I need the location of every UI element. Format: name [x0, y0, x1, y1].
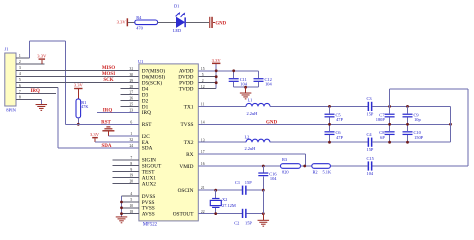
svg-text:6P: 6P — [380, 135, 385, 140]
pin 12 name TVDD U1 right — [179, 85, 205, 93]
svg-text:IRQ: IRQ — [30, 89, 40, 94]
wire D3 stub — [120, 94, 139, 96]
op-amp U1 MF522 body — [138, 59, 198, 227]
svg-text:820: 820 — [282, 170, 289, 175]
pin 15 name AVDD U1 right — [179, 67, 205, 75]
svg-text:47K: 47K — [81, 104, 88, 109]
wire OSCIN U1 pin21 to C1 — [198, 189, 242, 191]
svg-text:C3: C3 — [367, 96, 373, 101]
resistor R4 — [135, 15, 158, 30]
svg-text:23: 23 — [129, 109, 133, 113]
wire D4 stub — [120, 88, 139, 90]
svg-text:15P: 15P — [245, 220, 252, 225]
wire D1 to GND — [186, 21, 209, 23]
ground (oscillator) — [258, 220, 270, 227]
power 3.3V (LED row) — [117, 18, 128, 26]
junction C11C12 gnd — [244, 86, 247, 89]
wire VMID U1 pin16 to R3 — [198, 165, 280, 167]
wire antenna right vertical TX1-TX2 — [450, 106, 452, 142]
svg-text:MF522: MF522 — [143, 222, 158, 227]
svg-text:47P: 47P — [336, 135, 343, 140]
power 3.3V (EA) — [90, 132, 100, 142]
svg-text:MOSI: MOSI — [102, 72, 115, 77]
capacitor C15 (series) — [367, 156, 375, 176]
pin 7 name SIGIN U1 left — [130, 156, 156, 164]
capacitor C16 — [258, 166, 277, 190]
svg-text:2.2uH: 2.2uH — [245, 146, 257, 151]
pin 19 name AUX1 U1 left — [129, 174, 156, 182]
wire TX2 U1 pin13 to L2 — [198, 141, 246, 143]
svg-text:TVDD: TVDD — [179, 87, 194, 93]
wire antenna return to C15 — [372, 165, 468, 167]
inductor L1 — [246, 98, 270, 117]
svg-text:3: 3 — [19, 66, 21, 70]
wire C1 to gnd column — [247, 189, 264, 191]
resistor R3 — [281, 157, 301, 175]
junction AVSS — [120, 212, 123, 215]
svg-text:28: 28 — [129, 85, 133, 89]
wire MISO J1 pin3 to U1 pin31 — [16, 69, 139, 71]
junction TX2/C10 — [406, 141, 409, 144]
svg-text:D1: D1 — [174, 4, 179, 9]
svg-text:C4: C4 — [367, 132, 373, 137]
crystal X2 — [210, 190, 236, 213]
wire antenna top rail — [390, 88, 468, 90]
pin 21 name OSCIN U1 right — [178, 186, 205, 194]
wire AVDD rail — [198, 70, 258, 72]
svg-text:AVSS: AVSS — [142, 212, 155, 218]
svg-text:C15: C15 — [367, 156, 375, 161]
svg-text:2.2uH: 2.2uH — [247, 111, 259, 116]
pin 5 name PVSS U1 left — [130, 198, 154, 206]
svg-text:AUX2: AUX2 — [142, 181, 156, 187]
capacitor C10 — [403, 124, 424, 142]
pin 11 name TX1 U1 right — [184, 103, 205, 111]
wire R4 to D1 — [158, 21, 177, 23]
wire DVDD to bus — [198, 76, 216, 78]
svg-text:24: 24 — [129, 144, 133, 148]
svg-text:5: 5 — [19, 78, 21, 82]
pin 10 name TVSS U1 left — [129, 204, 154, 212]
wire J1 pin7 IRQ stub — [16, 93, 56, 95]
junction TVSS/C9 — [406, 123, 409, 126]
svg-text:LED: LED — [173, 28, 182, 33]
wire antenna outer right vertical — [467, 89, 469, 166]
pin 18 name AVSS U1 left — [129, 210, 154, 218]
svg-text:27.12M: 27.12M — [222, 203, 236, 208]
wire R1 to RST line — [77, 118, 79, 124]
svg-text:L2: L2 — [245, 135, 250, 140]
wire stub U1 left row — [113, 183, 140, 185]
svg-text:SDA: SDA — [142, 146, 153, 152]
svg-text:R2: R2 — [313, 170, 318, 175]
pin 2 name PVDD U1 right — [179, 79, 204, 87]
svg-text:27: 27 — [129, 91, 133, 95]
wire TX1 U1 pin11 to L1 — [198, 105, 246, 107]
capacitor C8 — [379, 124, 394, 142]
svg-text:3.3V: 3.3V — [90, 132, 100, 137]
wire stub U1 left row — [113, 159, 140, 161]
junction AVDD/bus — [215, 69, 218, 72]
capacitor C4 (series) — [367, 132, 374, 152]
svg-text:TX2: TX2 — [184, 140, 194, 146]
svg-text:R3: R3 — [282, 157, 288, 162]
wire RST to U1 pin6 — [66, 123, 140, 125]
svg-text:RST: RST — [101, 121, 111, 126]
svg-text:6: 6 — [130, 121, 132, 125]
pin 9 name TEST U1 left — [130, 168, 155, 176]
junction TX1/C5 — [328, 105, 331, 108]
wire SCK J1 pin5 to U1 pin29 — [16, 81, 139, 83]
wire TVDD to bus — [198, 88, 216, 90]
wire D2 stub — [120, 100, 139, 102]
svg-text:3.3V: 3.3V — [212, 58, 222, 63]
junction C1/gnd column — [262, 189, 265, 192]
wire TX1 after C3 — [372, 105, 451, 107]
wire stub U1 left row — [113, 171, 140, 173]
wire VDD bus vertical — [215, 64, 217, 89]
pin 28 name D4 U1 left — [129, 85, 148, 93]
svg-text:21: 21 — [201, 186, 205, 190]
pin 6 name RST U1 left — [130, 121, 152, 129]
junction OSTOUT/X2 — [214, 212, 217, 215]
svg-text:31: 31 — [129, 67, 133, 71]
junction R1/RST — [77, 123, 80, 126]
svg-text:L1: L1 — [248, 98, 253, 103]
svg-text:SCK: SCK — [103, 78, 113, 83]
junction PVSS — [120, 201, 123, 204]
pin 24 name SDA U1 left — [129, 144, 152, 152]
svg-text:VMID: VMID — [179, 164, 193, 170]
pin 22 name OSTOUT U1 right — [173, 210, 205, 218]
svg-text:D6(MOSI): D6(MOSI) — [142, 74, 165, 81]
pin 1 name I2C U1 left — [130, 132, 150, 140]
svg-text:3.3V: 3.3V — [37, 54, 47, 59]
svg-text:26: 26 — [129, 97, 133, 101]
wire to ground (C11 C12) — [245, 87, 247, 92]
pin 4 name DVSS U1 left — [130, 192, 155, 200]
junction TVSS/C7 — [388, 123, 391, 126]
pin 23 name IRQ U1 left — [129, 109, 151, 117]
svg-text:TVSS: TVSS — [181, 122, 194, 128]
svg-text:1: 1 — [130, 132, 132, 136]
svg-text:104: 104 — [367, 171, 374, 176]
pin 29 name D5(SCK) U1 left — [129, 79, 162, 87]
svg-text:MISO: MISO — [102, 66, 115, 71]
svg-text:104: 104 — [270, 176, 277, 181]
svg-text:R4: R4 — [136, 15, 142, 20]
pin 26 name D2 U1 left — [129, 97, 148, 105]
svg-text:TX1: TX1 — [184, 104, 194, 110]
junction C2/gnd column — [262, 212, 265, 215]
svg-text:5.1K: 5.1K — [323, 170, 332, 175]
pin 31 name D7(MISO) U1 left — [129, 67, 165, 75]
junction RX/R3/R2 — [303, 165, 306, 168]
wire D1 stub — [120, 105, 139, 107]
wire J1 pin1 to RST loop — [16, 41, 66, 124]
svg-text:47P: 47P — [336, 117, 343, 122]
svg-text:X2: X2 — [222, 197, 227, 202]
wire oscillator gnd column — [262, 190, 264, 220]
svg-text:25: 25 — [129, 103, 133, 107]
svg-text:RX: RX — [186, 152, 194, 158]
wire J1 pin8 to ground — [16, 100, 41, 105]
wire R3 to R2 — [301, 165, 312, 167]
capacitor C6 — [325, 124, 344, 142]
wire RX U1 pin17 — [198, 154, 305, 166]
junction DVDD/bus — [215, 75, 218, 78]
power 3.3V (R1) — [74, 83, 84, 99]
svg-text:10p: 10p — [414, 117, 421, 122]
wire I2C to U1 pin1 — [108, 135, 139, 137]
pin 25 name D1 U1 left — [129, 103, 148, 111]
pin 8 name SIGOUT U1 left — [130, 162, 162, 170]
wire C11/C12 bottom rail — [234, 86, 259, 88]
pin 32 name EA U1 left — [129, 138, 149, 146]
capacitor C12 — [254, 71, 273, 87]
junction TX1/C9 — [406, 105, 409, 108]
junction TVSS/C5 — [328, 123, 331, 126]
svg-text:30: 30 — [129, 73, 133, 77]
svg-text:8PIN: 8PIN — [6, 108, 16, 113]
ground (I2C pin, bars up) — [102, 126, 114, 136]
wire TX1 node up to top rail — [389, 89, 391, 107]
svg-text:J1: J1 — [5, 47, 9, 52]
junction PVDD/bus — [215, 81, 218, 84]
wire EA to U1 pin32 — [95, 141, 139, 143]
svg-text:3.3V: 3.3V — [74, 83, 84, 88]
resistor R1 — [76, 99, 88, 118]
svg-text:SDA: SDA — [101, 144, 111, 149]
svg-text:29: 29 — [129, 79, 133, 83]
wire C15 to R2 — [330, 165, 368, 167]
svg-text:15P: 15P — [367, 111, 374, 116]
junction C11 top — [232, 69, 235, 72]
capacitor C1 (series) — [235, 180, 252, 195]
svg-text:OSCIN: OSCIN — [178, 188, 194, 194]
wire J1 pin2 to 3.3V — [16, 63, 45, 65]
resistor R2 — [312, 164, 332, 175]
pin 17 name RX U1 right — [186, 150, 205, 158]
svg-text:IRQ: IRQ — [103, 109, 113, 114]
junction TVSS/antenna — [449, 123, 452, 126]
wire stub U1 left row — [113, 177, 140, 179]
connector J1 — [5, 47, 17, 113]
svg-text:104: 104 — [265, 82, 272, 87]
svg-text:C1: C1 — [235, 180, 240, 185]
capacitor C5 — [325, 106, 344, 124]
wire OSTOUT U1 pin22 to C2 — [198, 213, 242, 215]
capacitor C2 (series) — [234, 209, 252, 226]
wire 3.3V to R4 — [128, 21, 135, 23]
wire TX2 after C4 — [372, 141, 451, 143]
svg-text:104: 104 — [240, 82, 247, 87]
svg-text:U1: U1 — [138, 59, 143, 64]
svg-text:C2: C2 — [234, 220, 239, 225]
capacitor C9 — [403, 106, 422, 124]
svg-text:4: 4 — [19, 72, 21, 76]
power 3.3V (VDD bus) — [212, 58, 222, 64]
wire DVSS bus — [122, 196, 140, 216]
svg-text:3.3V: 3.3V — [117, 20, 127, 25]
pin 27 name D3 U1 left — [129, 91, 148, 99]
svg-text:GND: GND — [266, 120, 278, 125]
inductor L2 — [245, 135, 271, 151]
pin 5 name DVDD U1 right — [178, 73, 204, 81]
ground (J1 pin8) — [36, 104, 48, 111]
wire TX1 after L1 — [270, 105, 368, 107]
wire TVSS U1 pin14 to antenna — [198, 123, 450, 125]
svg-text:150P: 150P — [414, 135, 424, 140]
junction TX1/C7 — [388, 105, 391, 108]
wire IRQ to U1 pin23 — [97, 111, 139, 113]
capacitor C11 — [229, 71, 248, 87]
junction VMID/C16 — [262, 165, 265, 168]
power 3.3V (J1 pin2) — [37, 54, 47, 64]
junction TX2/C8 — [388, 141, 391, 144]
pin 20 name AUX2 U1 left — [129, 180, 156, 188]
ground (U1 VSS bus) — [116, 216, 128, 223]
junction TX2/C6 — [328, 141, 331, 144]
svg-text:IRQ: IRQ — [142, 110, 151, 116]
wire TX2 after L2 — [270, 141, 368, 143]
pin 30 name D6(MOSI) U1 left — [129, 73, 165, 81]
svg-text:32: 32 — [129, 138, 133, 142]
power GND (LED row) — [209, 17, 226, 28]
svg-text:GND: GND — [215, 22, 226, 27]
pin 16 name VMID U1 right — [179, 162, 204, 170]
capacitor C3 (series) — [367, 96, 374, 116]
pin 13 name TX2 U1 right — [184, 138, 205, 146]
svg-text:15P: 15P — [245, 180, 252, 185]
wire J1 pin6 to SDA — [16, 88, 139, 148]
svg-text:180P: 180P — [376, 117, 386, 122]
junction OSCIN/X2 — [214, 189, 217, 192]
junction TVSS — [120, 206, 123, 209]
svg-text:15P: 15P — [367, 147, 374, 152]
ground (C11 C12) — [240, 93, 252, 100]
wire stub U1 left row — [113, 165, 140, 167]
LED D1 — [173, 4, 186, 34]
capacitor C7 — [376, 106, 395, 124]
pin 14 name TVSS U1 right — [181, 121, 205, 129]
svg-text:RST: RST — [142, 122, 152, 128]
svg-text:OSTOUT: OSTOUT — [173, 212, 195, 218]
wire MOSI J1 pin4 to U1 pin30 — [16, 75, 139, 77]
wire C2 to gnd column — [247, 213, 264, 215]
wire PVDD to bus — [198, 82, 216, 84]
svg-text:470: 470 — [136, 25, 143, 30]
